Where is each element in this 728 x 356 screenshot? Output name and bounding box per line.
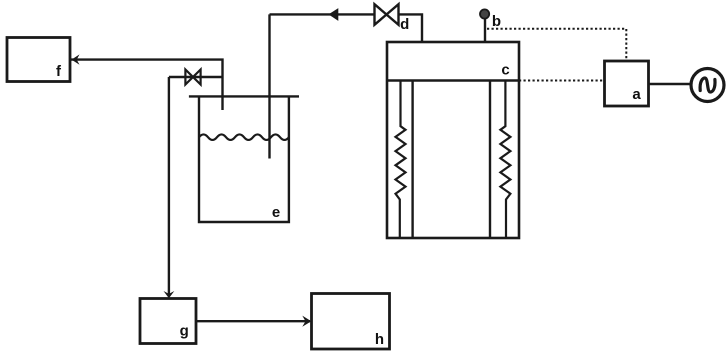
svg-text:c: c [501,61,509,78]
svg-text:a: a [632,86,641,103]
svg-text:d: d [400,16,409,33]
svg-text:b: b [492,13,501,30]
svg-text:f: f [56,63,62,80]
svg-text:e: e [272,204,280,221]
svg-text:g: g [180,323,189,340]
svg-text:h: h [375,331,384,348]
